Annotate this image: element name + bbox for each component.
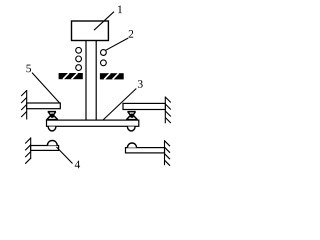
leader line to label 2 bbox=[106, 38, 129, 50]
bottom-right wall bbox=[165, 140, 171, 166]
ball column right: ball 2 (pointed by label) bbox=[101, 50, 107, 56]
svg-text:2: 2 bbox=[128, 29, 134, 41]
worktable beam 3 bbox=[47, 120, 139, 126]
upper-right wall bbox=[165, 97, 171, 124]
leader line to label 3 bbox=[103, 89, 136, 121]
ball column left: ball c bbox=[76, 65, 82, 71]
upper-left bracket bar 5 bbox=[27, 103, 61, 109]
right guide block (hatched) bbox=[100, 73, 124, 79]
left lower knob under beam bbox=[48, 127, 56, 131]
ball column right: ball d bbox=[101, 60, 107, 66]
spindle housing box 1 bbox=[72, 21, 109, 41]
spindle shaft right line bbox=[95, 41, 97, 121]
svg-text:3: 3 bbox=[137, 79, 143, 91]
bottom-right pad bar bbox=[126, 148, 165, 153]
ball column left: ball b bbox=[76, 56, 82, 62]
bottom-left dome 4 bbox=[47, 141, 57, 146]
svg-text:5: 5 bbox=[26, 63, 32, 75]
upper-left wall bbox=[21, 90, 27, 120]
right ball support (v-grooves + ball) bbox=[126, 112, 138, 120]
ball column left: ball a bbox=[76, 47, 82, 53]
bottom-right dome bbox=[127, 143, 136, 148]
leader line to label 1 bbox=[94, 12, 114, 31]
bottom-left wall bbox=[25, 137, 31, 163]
left guide block (hatched) bbox=[59, 73, 83, 79]
right lower knob under beam bbox=[127, 127, 135, 131]
leader line to label 4 bbox=[57, 147, 73, 164]
leader line to label 5 bbox=[32, 73, 60, 104]
spindle shaft left line bbox=[85, 41, 87, 121]
bottom-left pad bar bbox=[31, 146, 59, 151]
svg-text:4: 4 bbox=[74, 159, 80, 171]
upper-right bracket bar bbox=[123, 103, 165, 109]
left ball support (v-grooves + ball) bbox=[46, 112, 58, 120]
svg-text:1: 1 bbox=[117, 4, 123, 16]
